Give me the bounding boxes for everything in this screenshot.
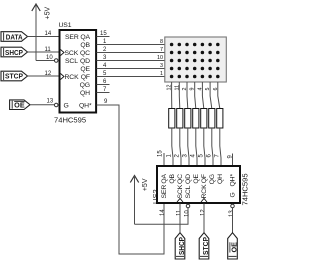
U2 pin 15 stub (QA)	[163, 153, 165, 166]
svg-text:SHCP: SHCP	[179, 237, 186, 255]
power +5V (top, for U1)	[32, 4, 52, 61]
svg-text:SER: SER	[65, 34, 79, 41]
svg-text:QE: QE	[80, 66, 90, 73]
wire U1 QE to matrix pin 3	[97, 68, 165, 70]
svg-text:8: 8	[160, 39, 163, 45]
svg-text:14: 14	[160, 209, 166, 216]
svg-text:11: 11	[45, 47, 52, 53]
wire R7 to U2 QH	[220, 128, 221, 166]
wire OE to U1 pin 13	[30, 104, 54, 106]
svg-text:15: 15	[100, 31, 107, 37]
svg-text:QA: QA	[80, 34, 90, 41]
svg-text:14: 14	[45, 31, 52, 37]
wire U1 QF to matrix pin 1	[97, 76, 165, 78]
svg-text:OE: OE	[14, 103, 25, 110]
svg-text:4: 4	[197, 88, 203, 91]
matrix column wire pin 5	[210, 82, 212, 109]
U1 pin 15 stub (QA)	[97, 36, 110, 38]
wire R5 to U2 QF	[204, 128, 205, 166]
svg-text:STCP: STCP	[5, 74, 23, 81]
svg-text:10: 10	[184, 210, 190, 217]
svg-text:1: 1	[160, 71, 163, 77]
resistor R3	[185, 109, 191, 129]
svg-text:12: 12	[45, 71, 52, 77]
svg-text:+5V: +5V	[142, 178, 149, 191]
matrix column wire pin 6	[218, 82, 220, 109]
svg-text:SCK: SCK	[65, 50, 79, 57]
IC U2 74HC595 body	[151, 166, 250, 206]
svg-text:15: 15	[158, 150, 164, 157]
svg-text:DATA: DATA	[6, 34, 23, 41]
matrix column wire pin 11	[178, 82, 181, 109]
svg-text:5: 5	[205, 88, 211, 91]
svg-text:QF: QF	[201, 174, 208, 183]
matrix column wire pin 9	[195, 82, 196, 109]
svg-text:10: 10	[46, 55, 53, 61]
matrix column wire pin 12	[171, 82, 173, 109]
svg-text:QH*: QH*	[230, 174, 237, 187]
bubble U1 pin 10	[54, 59, 58, 63]
resistor R4	[193, 109, 199, 129]
svg-text:QB: QB	[169, 173, 176, 183]
svg-text:US1: US1	[59, 22, 72, 29]
svg-text:13: 13	[47, 99, 54, 105]
svg-text:QF: QF	[81, 74, 90, 81]
svg-text:QD: QD	[80, 58, 90, 65]
wire STCP to U1 pin 12	[28, 75, 60, 77]
svg-text:G: G	[64, 103, 69, 110]
svg-text:11: 11	[174, 85, 180, 91]
U2 clock mark pin 12	[201, 199, 207, 203]
wire R2 to U2 QC	[180, 128, 181, 166]
svg-text:+5V: +5V	[45, 7, 52, 20]
wire U1 QH* (pin 9) to U2 SER (pin 14)	[97, 105, 165, 254]
matrix column wire pin 4	[202, 82, 203, 109]
wire R6 to U2 QG	[212, 128, 213, 166]
svg-text:2: 2	[182, 88, 188, 91]
wire U1 QB to matrix pin 8	[97, 44, 165, 46]
net label SHCP (bottom)	[175, 233, 186, 259]
svg-text:10: 10	[157, 55, 163, 61]
bubble U2 pin 10	[186, 204, 190, 208]
bubble U1 pin 13	[54, 103, 58, 107]
svg-text:SCL: SCL	[65, 58, 78, 65]
svg-text:SER: SER	[161, 185, 168, 199]
svg-text:RCK: RCK	[65, 74, 80, 81]
svg-text:OE: OE	[231, 242, 238, 253]
resistor R7	[217, 109, 223, 129]
svg-text:9: 9	[190, 88, 196, 91]
svg-text:QA: QA	[161, 173, 168, 183]
U2 clock mark pin 11	[177, 199, 183, 203]
net label OE	[10, 100, 30, 110]
wire R4 to U2 QE	[196, 128, 197, 166]
wire U2 SCK to SHCP tag	[179, 204, 181, 234]
svg-text:74HC595: 74HC595	[54, 116, 86, 125]
wire U2 RCK to STCP tag	[203, 204, 205, 234]
svg-text:6: 6	[213, 88, 219, 91]
wire R1 to U2 QB	[172, 128, 173, 166]
wire U1 QC to matrix pin 7	[97, 52, 165, 54]
net label OE (bottom)	[228, 233, 239, 259]
svg-text:QC: QC	[177, 174, 184, 184]
svg-text:RCK: RCK	[201, 184, 208, 199]
U1 clock mark pin 12	[61, 74, 65, 80]
svg-text:QB: QB	[80, 42, 90, 49]
U1 pin 6 stub (QG)	[97, 84, 110, 86]
LED matrix DZ1 body	[165, 37, 227, 82]
U2 pin 9 stub (QH*)	[232, 154, 234, 167]
wire +5V to U2 pin 10 (SCL)	[135, 208, 189, 224]
resistor R5	[201, 109, 207, 129]
LED matrix dots	[170, 43, 220, 79]
wire U1 QD to matrix pin 10	[97, 60, 165, 62]
net label STCP	[1, 71, 28, 81]
wire R3 to U2 QD	[188, 128, 189, 166]
svg-text:3: 3	[160, 63, 163, 69]
net label DATA	[1, 32, 28, 42]
svg-text:QD: QD	[185, 174, 192, 184]
svg-text:SHCP: SHCP	[5, 50, 23, 57]
svg-text:12: 12	[167, 85, 173, 91]
svg-text:SCK: SCK	[177, 184, 184, 198]
power +5V (bottom, for U2)	[130, 176, 149, 225]
svg-text:SCL: SCL	[185, 185, 192, 198]
IC U1 74HC595 body	[54, 22, 96, 125]
wire DATA to U1 pin 14	[28, 36, 60, 38]
svg-text:7: 7	[160, 47, 163, 53]
wire U2 G to OE tag	[232, 208, 234, 233]
wire +5V to U1 pin 10 (SCL)	[36, 60, 54, 62]
svg-text:QC: QC	[80, 50, 90, 57]
resistor R6	[209, 109, 215, 129]
U1 clock mark pin 11	[61, 50, 65, 56]
svg-text:G: G	[230, 192, 237, 197]
U1 pin 7 stub (QH)	[97, 92, 110, 94]
resistor R1	[169, 109, 175, 129]
svg-text:STCP: STCP	[203, 237, 210, 255]
net label SHCP	[1, 47, 28, 57]
svg-text:QE: QE	[193, 173, 200, 183]
svg-text:QH: QH	[217, 174, 224, 184]
matrix column wire pin 2	[186, 82, 189, 109]
svg-text:QG: QG	[80, 82, 90, 89]
svg-text:QH: QH	[80, 90, 90, 97]
svg-text:QG: QG	[209, 174, 216, 184]
wire SHCP to U1 pin 11	[28, 51, 60, 53]
resistor R2	[177, 109, 183, 129]
svg-text:US2: US2	[151, 189, 160, 204]
svg-text:QH*: QH*	[79, 103, 92, 110]
svg-text:74HC595: 74HC595	[241, 173, 250, 205]
bubble U2 pin 13	[231, 204, 235, 208]
net label STCP (bottom)	[199, 233, 210, 259]
